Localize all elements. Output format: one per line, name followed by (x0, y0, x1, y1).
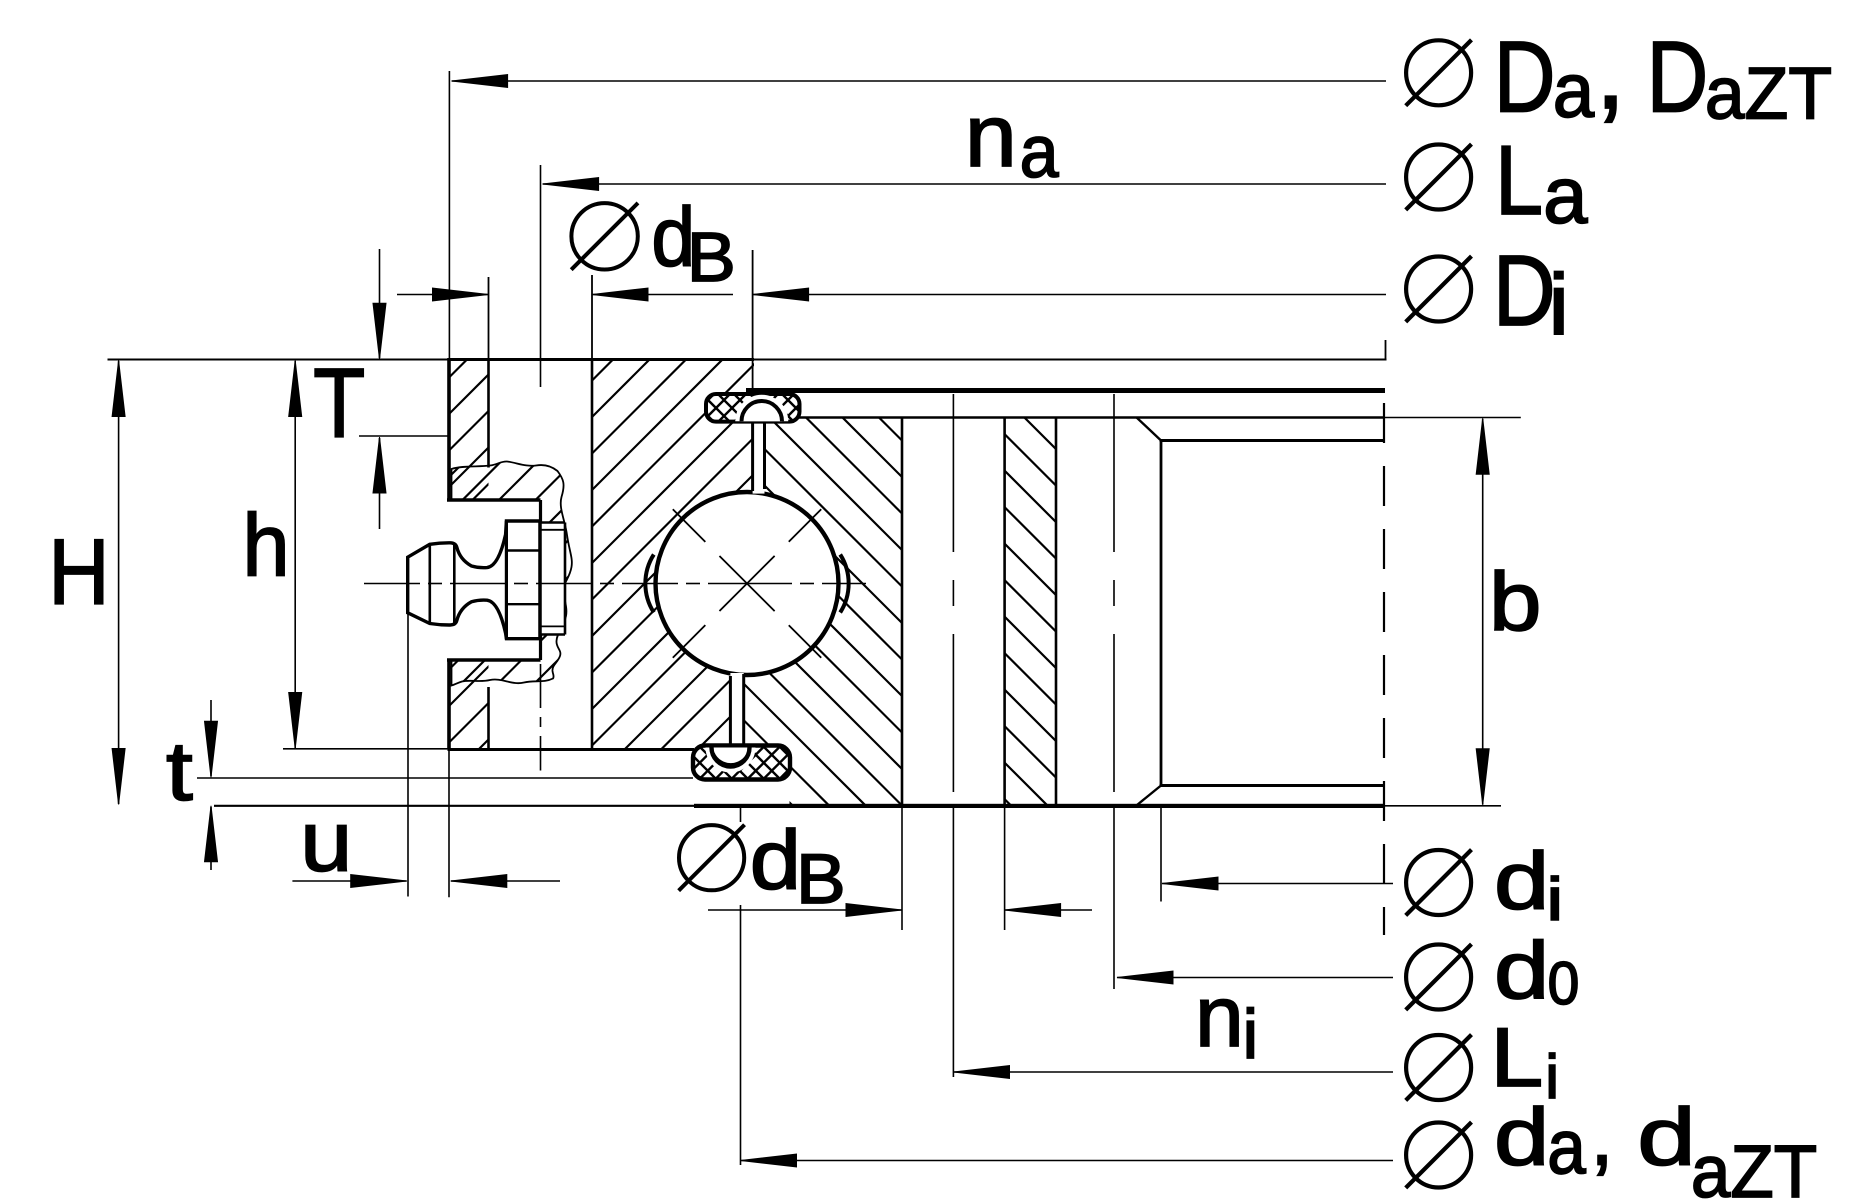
Di extension line (752, 250, 754, 391)
broken-out section island (hatched) around grease nipple (238, 459, 796, 688)
dimension dB bottom (708, 909, 902, 911)
bottom gap right wall (742, 674, 745, 748)
recess bottom edge (447, 658, 541, 662)
dimension t (210, 700, 212, 776)
h bottom reference line (283, 748, 451, 750)
svg-text:i: i (1547, 866, 1564, 932)
recess back wall lower (539, 634, 542, 661)
ball (rolling element) (656, 492, 839, 675)
inner ring bolt hole centre line (Li) (952, 394, 954, 805)
top gap left wall (outer ring bore) (751, 391, 754, 491)
dimension b arrows (1476, 418, 1489, 474)
Da extension line (448, 71, 450, 358)
dimension La (543, 183, 1386, 185)
tooth root line (1055, 418, 1058, 806)
hex facet line upper (506, 549, 540, 551)
thread crest bottom (541, 633, 566, 636)
inner ring bolt hole left wall (901, 418, 904, 806)
u left extension (nipple tip) (407, 614, 409, 897)
hex facet line lower (506, 603, 540, 605)
t reference line (197, 777, 693, 779)
label dB bottom: diameter symbol (679, 825, 744, 890)
svg-text:n: n (965, 87, 1017, 185)
gear tooth tip face (1160, 441, 1163, 786)
svg-text:D: D (1647, 20, 1709, 133)
label La: diameter symbol (1406, 145, 1471, 210)
svg-text:B: B (796, 840, 846, 919)
svg-text:a: a (1547, 1104, 1586, 1190)
hex flange back face (538, 521, 541, 639)
label Li: diameter symbol (1406, 1035, 1471, 1100)
dimension H (118, 361, 120, 804)
outer ring outside face lower (447, 660, 451, 750)
svg-text:a: a (1020, 112, 1060, 194)
thread root top (541, 529, 566, 531)
label d0: diameter symbol (1406, 945, 1471, 1010)
gear rim top face (1160, 439, 1386, 442)
svg-text:L: L (1495, 125, 1543, 235)
bolt hole left wall lower (487, 687, 490, 750)
recess back wall upper (539, 500, 542, 523)
dB bottom right extension (1004, 808, 1006, 930)
right corner tick at Da edge (1385, 340, 1387, 360)
svg-text:L: L (1490, 1011, 1543, 1104)
svg-text:n: n (1195, 969, 1244, 1065)
recess top edge (447, 498, 541, 502)
dimension di (1162, 883, 1393, 885)
dimension Da, DaZT (452, 80, 1386, 82)
break line (wavy freehand outline) (452, 461, 572, 685)
horizontal centre line through ball and nipple (364, 583, 420, 585)
threaded hole white (541, 522, 566, 635)
dimension dB top (397, 294, 489, 296)
nipple dome right vertical (453, 545, 456, 624)
gear pitch centre line (d0) (1113, 394, 1115, 805)
inner ring top face (765, 416, 1385, 419)
svg-text:d: d (1494, 836, 1549, 926)
u right extension (ring face) (448, 750, 450, 898)
svg-text:d: d (1494, 926, 1549, 1016)
svg-text:aZT: aZT (1705, 53, 1832, 135)
dimension T (379, 249, 381, 358)
dimension h (294, 361, 296, 748)
bottom seal lip notch (706, 748, 756, 773)
dimension Di (753, 294, 1386, 296)
thick top line of inner ring assembly (746, 388, 1385, 393)
bottom seal lip arc (713, 754, 749, 765)
bottom datum line left thin part (214, 805, 694, 807)
dimension u (292, 880, 406, 882)
top seal lip notch (735, 395, 788, 422)
gear rim bottom chamfer (1137, 786, 1161, 806)
inner ring bolt hole right wall (1003, 418, 1006, 806)
svg-text:,: , (1595, 9, 1626, 132)
label Da DaZT: diameter symbol (1406, 40, 1471, 105)
svg-text:,: , (1590, 1088, 1613, 1182)
grease nipple body (408, 521, 540, 639)
thread crest top (541, 521, 566, 524)
dimension da, daZT (741, 1160, 1394, 1162)
dB top left extension (488, 277, 490, 360)
threaded hole end face (564, 523, 567, 635)
bottom seal (cross-hatched) (693, 746, 790, 780)
right edge dashed line of gear rim (1383, 403, 1385, 935)
bottom face of inner ring (thick) (694, 804, 1385, 808)
race groove arc left (645, 555, 653, 613)
outer ring hatched section (77, 360, 1124, 750)
top seal (cross-hatched) (706, 394, 800, 422)
svg-text:d: d (1494, 1092, 1549, 1182)
top gap right wall (inner ring) (763, 419, 766, 490)
ball centre diagonal cross (45deg dashes) (673, 509, 821, 657)
svg-text:u: u (300, 794, 352, 889)
svg-text:T: T (313, 348, 365, 458)
svg-text:H: H (48, 520, 109, 623)
svg-text:t: t (166, 725, 193, 819)
grease nipple recess (spot face) white (447, 500, 541, 660)
outer ring outside face upper (447, 358, 451, 500)
nipple head inner vertical (428, 544, 431, 623)
svg-text:a: a (1543, 151, 1588, 240)
inner ring hatched section (368, 418, 1267, 806)
race groove arc right (840, 555, 848, 613)
svg-text:B: B (687, 219, 736, 297)
gap above ball (white) (753, 422, 765, 494)
svg-text:aZT: aZT (1691, 1131, 1817, 1200)
di extension below (1160, 808, 1162, 902)
b reference top extension (1384, 417, 1521, 419)
label da daZT: diameter symbol (1406, 1123, 1471, 1188)
bottom b reference extension (1385, 805, 1501, 807)
label di: diameter symbol (1406, 850, 1471, 915)
bolt hole right wall (591, 360, 594, 750)
svg-text:h: h (242, 496, 289, 595)
svg-text:D: D (1493, 234, 1556, 346)
label Di: diameter symbol (1406, 257, 1471, 322)
bolt hole centre line (La) (540, 165, 542, 387)
dimension d0 (1117, 977, 1393, 979)
outer ring bottom face (448, 748, 695, 751)
svg-text:d: d (750, 814, 801, 907)
svg-text:i: i (1243, 995, 1259, 1073)
gear rim top chamfer (1137, 418, 1161, 441)
gear rim bottom face (1160, 784, 1385, 787)
T bottom reference line (359, 435, 448, 437)
dB top right extension (591, 275, 593, 360)
svg-text:D: D (1494, 20, 1556, 133)
svg-text:b: b (1489, 555, 1541, 647)
da extension line (740, 808, 742, 822)
dimension Li (954, 1071, 1394, 1073)
svg-text:d: d (1637, 1091, 1696, 1182)
gap below ball (white) (730, 673, 743, 750)
bolt hole left wall upper (487, 360, 490, 468)
top line right part (Da edge) (754, 359, 1387, 361)
hex flange front face (505, 521, 508, 639)
b dimension line (1482, 419, 1484, 805)
bottom gap left wall (729, 676, 732, 750)
svg-text:0: 0 (1548, 951, 1580, 1018)
svg-text:a: a (1553, 49, 1595, 134)
thread root bottom (541, 625, 566, 627)
outer ring top face (448, 358, 754, 361)
dB bottom left extension (901, 808, 903, 930)
label dB top: diameter symbol (571, 203, 637, 269)
svg-text:i: i (1548, 257, 1569, 353)
top face line / H reference (108, 359, 449, 361)
inner ring hatched strip between bolt hole and gear teeth (623, 418, 1412, 806)
